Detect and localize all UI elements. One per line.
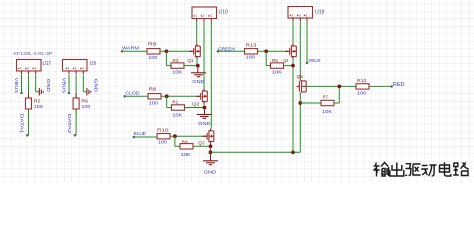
resistor R2 xyxy=(26,94,32,114)
net anchor VBUS xyxy=(68,92,71,95)
junction Q3 ground rail xyxy=(209,150,213,154)
wire node to R7 xyxy=(300,102,321,104)
wire Q5 to R12 xyxy=(306,85,356,87)
junction Q4 source to rail xyxy=(291,150,295,154)
svg-text:R7: R7 xyxy=(323,95,329,100)
svg-text:100: 100 xyxy=(148,55,158,60)
wire R4 to Q3 source xyxy=(193,145,211,147)
svg-text:DATA1: DATA1 xyxy=(20,114,25,134)
wire U17 pin3 down xyxy=(35,75,37,92)
svg-text:U10: U10 xyxy=(219,9,229,15)
svg-text:R1: R1 xyxy=(172,100,178,105)
wire U18 pin3 to VBUS xyxy=(306,21,308,63)
resistor R4 xyxy=(180,144,193,149)
wire R5 to Q4 source xyxy=(284,65,294,67)
ground Q2 xyxy=(197,115,212,119)
wire R8 to Q2 gate xyxy=(161,95,199,97)
resistor R8 xyxy=(148,94,161,99)
transistor Q5 xyxy=(297,79,307,94)
svg-text:U17: U17 xyxy=(43,61,52,67)
wire to R5 xyxy=(266,65,270,67)
wire U10 pin1 to Q1 drain xyxy=(196,22,198,44)
svg-text:3: 3 xyxy=(34,67,36,71)
transistor Q1 xyxy=(189,44,200,59)
junction Q5 R7 node xyxy=(298,101,302,105)
resistor R5 xyxy=(271,63,284,68)
svg-text:R6: R6 xyxy=(81,99,88,104)
wire gate node down to R5 xyxy=(265,51,267,65)
resistor R12 xyxy=(356,84,369,89)
wire U9 pin3 to ground xyxy=(83,91,87,93)
svg-text:Q4: Q4 xyxy=(284,58,289,63)
wire gate node down to R4 xyxy=(174,136,176,146)
svg-text:1: 1 xyxy=(292,14,294,18)
svg-text:BLUE: BLUE xyxy=(134,131,147,136)
svg-text:100: 100 xyxy=(149,100,159,105)
svg-text:3: 3 xyxy=(210,14,212,18)
svg-text:Q5: Q5 xyxy=(297,74,304,79)
net anchor VBUS xyxy=(20,92,23,95)
net anchor RED xyxy=(390,85,393,88)
svg-text:3: 3 xyxy=(306,14,308,18)
ground Q3 xyxy=(203,161,218,165)
wire ground rail xyxy=(211,151,301,153)
resistor R3 xyxy=(171,63,184,68)
junction BLUE gate node xyxy=(173,134,177,138)
svg-text:100: 100 xyxy=(81,104,91,109)
wire R7 right xyxy=(334,102,339,104)
connector U9 xyxy=(63,60,88,75)
title text 输出驱动电路 xyxy=(373,162,469,176)
svg-text:3: 3 xyxy=(82,67,84,71)
resistor R10 xyxy=(157,134,170,139)
svg-text:DATA2: DATA2 xyxy=(67,114,72,134)
svg-text:RED: RED xyxy=(393,82,405,88)
junction Q3 source xyxy=(209,144,213,148)
svg-text:VBUS: VBUS xyxy=(62,78,67,93)
ground U17 xyxy=(39,88,43,95)
svg-text:GND: GND xyxy=(198,121,211,127)
svg-text:2: 2 xyxy=(75,67,77,71)
resistor R6 xyxy=(73,94,79,114)
svg-text:10K: 10K xyxy=(181,152,192,157)
svg-text:R9: R9 xyxy=(148,41,157,46)
wire gate node down to R1 xyxy=(166,96,168,107)
svg-text:GND: GND xyxy=(46,79,51,93)
connector U17 xyxy=(17,60,42,75)
wire Q2 source down xyxy=(203,104,205,108)
junction Q2 source xyxy=(203,106,207,110)
svg-text:10K: 10K xyxy=(272,70,283,75)
svg-text:VBUS: VBUS xyxy=(14,78,19,93)
resistor R9 xyxy=(147,49,160,54)
svg-text:Q1: Q1 xyxy=(187,58,194,63)
junction Q4 source xyxy=(291,64,295,68)
resistor R1 xyxy=(172,105,185,110)
wire U17 pin1 to VBUS xyxy=(21,75,23,93)
junction output node xyxy=(337,85,341,89)
wire R12 to RED xyxy=(369,85,392,87)
wire R7 up to output xyxy=(338,86,340,103)
svg-text:2: 2 xyxy=(27,67,29,71)
wire Q4 source down to rail xyxy=(292,59,294,153)
wire Q5 down to gate node xyxy=(299,94,301,103)
svg-text:R10: R10 xyxy=(157,127,169,132)
svg-text:R3: R3 xyxy=(173,58,179,63)
wire CLOD to R8 xyxy=(125,95,148,97)
wire R1 to Q2 source xyxy=(185,107,205,109)
wire U9 pin1 to VBUS xyxy=(68,75,70,93)
svg-text:U9: U9 xyxy=(90,61,96,67)
wire U17 pin2 to R2 xyxy=(28,75,30,98)
svg-text:GND: GND xyxy=(94,79,99,93)
wire R3 to Q1 source xyxy=(184,65,198,67)
transistor Q3 xyxy=(203,129,214,144)
net anchor VBUS xyxy=(306,62,309,65)
junction GREEN gate node xyxy=(264,49,268,53)
svg-text:1: 1 xyxy=(68,67,70,71)
svg-text:2: 2 xyxy=(203,14,205,18)
svg-text:U18: U18 xyxy=(315,9,325,15)
wire U9 pin3 down xyxy=(82,75,84,92)
svg-text:100: 100 xyxy=(158,140,168,145)
wire Q1 source down xyxy=(196,59,198,66)
svg-text:1: 1 xyxy=(20,67,22,71)
transistor Q4 xyxy=(285,44,296,59)
svg-text:R5: R5 xyxy=(272,58,278,63)
wire R13 to Q4 gate xyxy=(258,50,289,52)
wire U10 pin3 to Q3 drain xyxy=(210,22,212,129)
wire gate node down to R3 xyxy=(165,51,167,65)
junction WARM gate node xyxy=(165,49,169,53)
svg-text:GND: GND xyxy=(192,79,205,85)
junction CLOD gate node xyxy=(165,94,169,98)
net anchor DATA1 xyxy=(26,134,29,137)
net anchor GREEN xyxy=(217,50,220,53)
svg-text:GND: GND xyxy=(204,170,217,176)
wire BLUE to R10 xyxy=(134,136,157,138)
svg-text:Q3: Q3 xyxy=(198,140,205,145)
svg-text:R4: R4 xyxy=(182,139,189,144)
svg-text:R8: R8 xyxy=(149,87,157,92)
svg-text:10K: 10K xyxy=(172,70,183,75)
wire U18 pin2 to Q5 xyxy=(299,21,301,79)
svg-text:100: 100 xyxy=(34,104,44,109)
resistor R13 xyxy=(245,49,258,54)
svg-text:100: 100 xyxy=(357,91,367,96)
net anchor CLOD xyxy=(123,95,126,98)
wire GREEN to R13 xyxy=(218,50,245,52)
resistor R7 xyxy=(321,100,334,105)
wire U17 pin3 to ground xyxy=(36,91,40,93)
svg-text:VBUS: VBUS xyxy=(308,58,320,63)
connector U10 xyxy=(192,7,217,22)
junction Q1 source xyxy=(196,64,200,68)
svg-text:R13: R13 xyxy=(246,42,258,47)
transistor Q2 xyxy=(196,89,207,104)
svg-text:2: 2 xyxy=(299,14,301,18)
wire U18 pin1 to Q4 drain xyxy=(292,21,294,44)
svg-text:Q2: Q2 xyxy=(192,102,200,107)
svg-text:WARM: WARM xyxy=(122,45,139,50)
wire to R1 xyxy=(167,107,172,109)
svg-text:1: 1 xyxy=(195,14,197,18)
wire R2 to DATA1 xyxy=(28,109,30,135)
wire R9 to Q1 gate xyxy=(160,50,192,52)
wire rail up to Q5 gate node xyxy=(299,103,301,152)
net anchor WARM xyxy=(121,50,124,53)
wire WARM to R9 xyxy=(122,50,147,52)
wire to R3 xyxy=(166,65,171,67)
ground Q1 xyxy=(191,73,206,77)
svg-text:10K: 10K xyxy=(322,109,333,114)
svg-text:CLOD: CLOD xyxy=(125,90,140,95)
wire to R4 xyxy=(175,145,180,147)
wire Q3 source down xyxy=(210,144,212,153)
connector U18 xyxy=(288,7,313,22)
ground U9 xyxy=(87,88,91,95)
wire U9 pin2 to R6 xyxy=(75,75,77,98)
svg-text:100: 100 xyxy=(246,55,256,60)
net anchor BLUE xyxy=(133,136,136,139)
wire R6 to DATA2 xyxy=(75,109,77,135)
wire U10 pin2 to Q2 drain xyxy=(203,22,205,89)
svg-text:R12: R12 xyxy=(357,78,367,83)
svg-text:KF128L-3.81-3P: KF128L-3.81-3P xyxy=(13,51,52,57)
svg-text:R2: R2 xyxy=(34,99,41,104)
net anchor DATA2 xyxy=(74,134,77,137)
svg-text:10K: 10K xyxy=(172,112,183,117)
wire R10 to Q3 gate xyxy=(170,135,206,137)
